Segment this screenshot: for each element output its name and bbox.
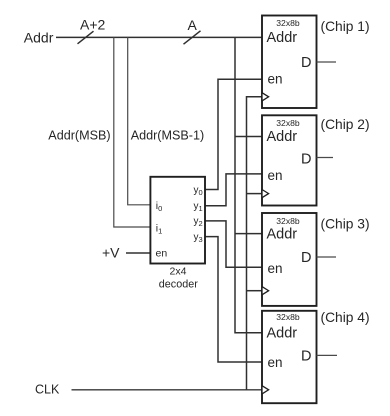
wire Addr branch chip2 [235, 136, 262, 138]
svg-text:32x8b: 32x8b [276, 18, 300, 28]
svg-text:32x8b: 32x8b [276, 216, 300, 226]
svg-text:en: en [268, 72, 283, 87]
svg-text:D: D [301, 250, 311, 266]
svg-text:+V: +V [102, 245, 120, 261]
bus width slash A [184, 31, 201, 44]
svg-text:32x8b: 32x8b [276, 118, 300, 128]
svg-text:Addr: Addr [267, 326, 298, 342]
svg-text:(Chip 4): (Chip 4) [321, 310, 370, 325]
wire Addr branch chip3 [235, 233, 262, 235]
chip2 clock input triangle [262, 190, 269, 198]
svg-text:en: en [268, 355, 283, 370]
bus width slash A+2 [78, 31, 94, 44]
memory chip U3 box [262, 213, 317, 306]
chip4 clock input triangle [262, 386, 269, 394]
svg-text:A: A [188, 17, 198, 33]
wire CLK branch chip3 clock [247, 290, 263, 292]
svg-text:32x8b: 32x8b [276, 312, 300, 322]
chip1 clock input triangle [262, 93, 269, 101]
wire CLK branch chip2 clock [247, 193, 263, 195]
wire CLK bus vertical [247, 97, 263, 390]
svg-text:Addr: Addr [267, 30, 298, 46]
svg-text:D: D [301, 152, 311, 168]
svg-text:CLK: CLK [35, 383, 60, 397]
wire +V to decoder en [126, 252, 150, 254]
memory chip U1 box [262, 16, 317, 109]
wire Addr(MSB) to decoder i1 [114, 37, 151, 227]
svg-text:Addr: Addr [267, 227, 298, 243]
svg-text:D: D [301, 349, 311, 365]
wire chip3 D output [317, 256, 337, 258]
svg-text:Addr: Addr [24, 30, 54, 46]
wire Addr bus vertical to chips [235, 37, 262, 332]
svg-text:(Chip 1): (Chip 1) [321, 19, 370, 34]
svg-text:2x4: 2x4 [170, 265, 187, 277]
svg-text:Addr: Addr [267, 129, 298, 145]
wire decoder y3 to chip4 en [205, 237, 262, 362]
svg-text:(Chip 3): (Chip 3) [321, 217, 370, 232]
svg-text:D: D [301, 55, 311, 71]
wire decoder y1 to chip2 en [205, 174, 262, 206]
svg-text:decoder: decoder [159, 279, 198, 291]
wire Addr(MSB-1) to decoder i0 [128, 37, 151, 204]
svg-text:A+2: A+2 [80, 17, 106, 33]
wire CLK main to chip4 clock [72, 389, 263, 391]
wire chip1 D output [317, 61, 337, 63]
wire chip2 D output [317, 157, 334, 159]
svg-text:Addr(MSB): Addr(MSB) [48, 129, 110, 143]
decoder 2x4 box [150, 177, 205, 264]
wire chip4 D output [317, 354, 338, 356]
svg-text:en: en [268, 261, 283, 276]
memory chip U4 box [262, 311, 317, 403]
svg-text:en: en [268, 168, 283, 183]
svg-text:en: en [156, 248, 168, 260]
wire Addr main horizontal bus A [56, 36, 262, 38]
wire decoder y2 to chip3 en [205, 221, 262, 267]
memory chip U2 box [262, 115, 317, 205]
wire decoder y0 to chip1 en [205, 79, 262, 189]
svg-text:(Chip 2): (Chip 2) [321, 117, 370, 132]
svg-text:Addr(MSB-1): Addr(MSB-1) [131, 129, 204, 143]
chip3 clock input triangle [262, 287, 269, 295]
